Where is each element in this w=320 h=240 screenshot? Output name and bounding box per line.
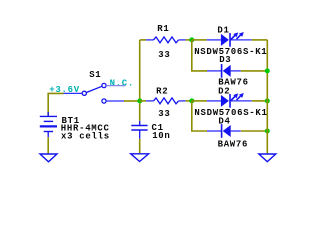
resistor R2 (146, 98, 186, 104)
battery BT1 (40, 112, 57, 137)
wire R1 to left bus junction (186, 39, 192, 41)
label D3 (219, 55, 231, 65)
ground under C1 (131, 154, 149, 162)
svg-text:D3: D3 (219, 55, 231, 65)
svg-text:x3 cells: x3 cells (61, 131, 110, 141)
value 33 (R1) (158, 50, 170, 60)
wire D3 to right bus (241, 70, 267, 72)
LED D2 (221, 93, 244, 108)
diode D4 (points left) (222, 124, 231, 138)
wire D1 to right bus (252, 39, 268, 41)
wire +3.6V rail from battery to switch (48, 93, 63, 116)
svg-text:D1: D1 (217, 25, 229, 35)
capacitor C1 (131, 121, 147, 139)
wire center vertical (R1 feed / C1 top) (139, 40, 141, 121)
resistor R1 (146, 37, 186, 43)
wire row A to D1 (192, 39, 207, 41)
junction right bus at D2 row (265, 98, 270, 103)
label D4 (218, 116, 230, 126)
junction right bus at D3 row (265, 68, 270, 73)
ground under battery (40, 154, 57, 162)
svg-text:BAW76: BAW76 (218, 139, 249, 149)
label R2 (156, 86, 168, 96)
diode D2 pins (207, 100, 252, 102)
svg-text:S1: S1 (89, 70, 101, 80)
junction at switch/R2/C1 node (137, 98, 142, 103)
wire left U lower (D2 to D4 loop) (192, 101, 207, 131)
wire battery to ground (47, 137, 49, 154)
label C1 (152, 123, 164, 133)
wire R2 to left bus junction (186, 100, 192, 102)
svg-text:NSDW5706S-K1: NSDW5706S-K1 (194, 108, 267, 118)
value BAW76 (D4) (218, 139, 249, 149)
svg-text:N.C.: N.C. (110, 78, 134, 88)
wire D2 to right bus (252, 100, 268, 102)
wire left U upper (D1 to D3 loop) (192, 40, 207, 71)
switch S1 (82, 83, 106, 103)
label D2 (218, 86, 230, 96)
switch lower pin (106, 100, 124, 102)
label S1 (89, 70, 101, 80)
label BT1 (62, 116, 80, 126)
label R1 (157, 24, 169, 34)
wire row C to D2 (192, 100, 207, 102)
diode D1 pins (207, 39, 252, 41)
value x3 cells (61, 131, 110, 141)
value NSDW5706S-K1 (D1) (194, 47, 267, 57)
LED D1 (221, 32, 244, 47)
diode D4 pins (207, 130, 241, 132)
junction R1/D1 node (189, 37, 194, 42)
junction right bus at D4 row (265, 129, 270, 134)
svg-text:10n: 10n (152, 131, 170, 141)
diode D3 pins (207, 70, 241, 72)
svg-text:33: 33 (158, 50, 170, 60)
svg-text:D4: D4 (218, 116, 230, 126)
wire right bus vertical (266, 40, 268, 154)
svg-text:D2: D2 (218, 86, 230, 96)
wire R2 row left stub (140, 100, 146, 102)
switch S1 pin from rail (64, 92, 83, 94)
value 33 (R2) (158, 109, 170, 119)
junction R2/D2 node (189, 98, 194, 103)
value 10n (152, 131, 170, 141)
wire R1 row left stub (140, 39, 146, 41)
value NSDW5706S-K1 (D2) (194, 108, 267, 118)
diode D3 (points left) (222, 64, 231, 78)
value BAW76 (D3) (218, 77, 249, 87)
svg-text:R2: R2 (156, 86, 168, 96)
switch N.C. stub pin (106, 85, 125, 87)
node +3.6V label (49, 85, 80, 95)
node N.C. label (110, 78, 134, 88)
ground right bus (259, 154, 276, 162)
svg-text:33: 33 (158, 109, 170, 119)
label D1 (217, 25, 229, 35)
wire switch to center junction (124, 100, 140, 102)
value HHR-4MCC (61, 123, 110, 133)
wire D4 to right bus junction (241, 130, 267, 132)
svg-text:R1: R1 (157, 24, 169, 34)
wire C1 to ground (139, 139, 141, 154)
